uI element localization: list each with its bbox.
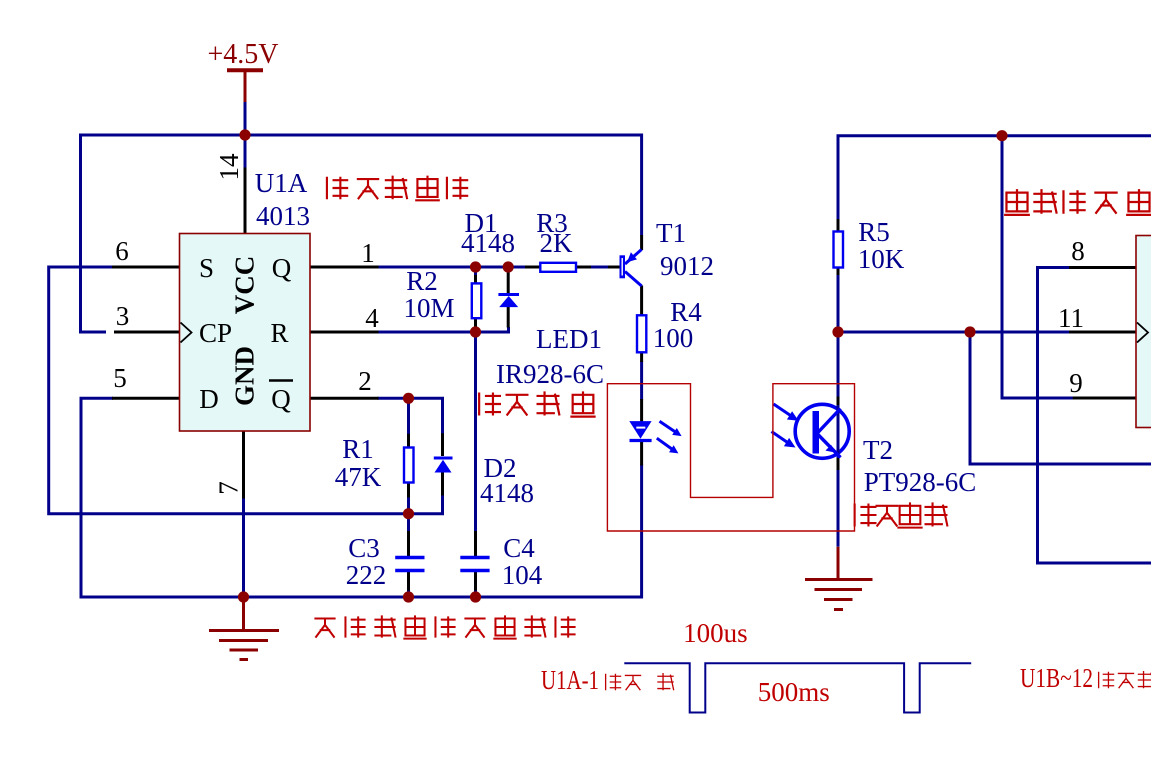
svg-text:R2: R2 (406, 266, 438, 296)
node: ground rail / pin7 (238, 591, 249, 602)
wire: R5 bottom to pin11 row (838, 274, 1070, 332)
svg-text:R5: R5 (858, 217, 890, 247)
svg-text:4013: 4013 (256, 201, 310, 231)
ground (under T2) (805, 547, 873, 610)
resistor R3 (540, 263, 576, 272)
svg-text:6: 6 (115, 236, 129, 266)
wire: pin 14 from power junction (244, 102, 247, 169)
transistor T1 (PNP 9012) (620, 249, 642, 286)
wire: T1 collector to R4 to LED1 (640, 361, 643, 400)
resistor R1 (404, 448, 414, 483)
svg-text:2K: 2K (540, 228, 574, 258)
svg-text:C3: C3 (348, 533, 380, 563)
svg-text:T2: T2 (863, 435, 893, 465)
svg-text:100: 100 (653, 323, 694, 353)
svg-text:R1: R1 (342, 434, 374, 464)
ground (left, under pin 7) (209, 600, 279, 660)
wire: rail junction down to pin 9 (1002, 136, 1074, 398)
label 红外发射 (IR transmit, stylized) (479, 391, 596, 416)
svg-text:D: D (199, 384, 219, 414)
black pin stub: LED1 terminals (640, 399, 643, 466)
node: R row / R2 bottom (470, 326, 481, 337)
node: pin11 row branch (964, 326, 975, 337)
black pin stub: T2 terminals (837, 397, 840, 471)
black pin stub: R3 terminals and T1 base (525, 266, 620, 269)
svg-text:222: 222 (346, 560, 387, 590)
svg-text:7: 7 (214, 481, 244, 495)
wire: T2 collector/emitter column (837, 332, 840, 547)
svg-text:4148: 4148 (461, 228, 515, 258)
label 红外接收 (IR receive, stylized) (855, 502, 948, 527)
black pin stub: D2 terminals (441, 433, 444, 495)
resistor R4 (637, 315, 646, 352)
svg-text:CP: CP (199, 318, 232, 348)
wire: D pin to bottom ground rail and up LED branch (81, 398, 642, 597)
black pin stub: U1A left pins (112, 267, 180, 398)
svg-text:Q: Q (271, 384, 291, 414)
diode D2 (434, 458, 453, 473)
black pin stub: C4 terminals (474, 531, 477, 591)
LED LED1 (629, 421, 681, 453)
capacitor C3 (395, 558, 424, 571)
svg-text:10K: 10K (858, 244, 905, 274)
svg-text:C4: C4 (503, 533, 535, 563)
clock triangle U1A pin CP (181, 323, 192, 343)
svg-text:1: 1 (361, 238, 375, 268)
svg-text:11: 11 (1058, 303, 1084, 333)
diode D1 (498, 295, 519, 308)
svg-text:LED1: LED1 (536, 324, 602, 354)
node: Q row / D1 top (503, 261, 514, 272)
svg-text:104: 104 (502, 560, 543, 590)
node: R1 bottom feedback (403, 508, 414, 519)
svg-text:R: R (270, 318, 288, 348)
black pin stub: R1 terminals (407, 434, 410, 498)
wire: R1 branch vertical and C3 branch (407, 398, 410, 597)
wire: S pin feedback loop (pin6 left, down, right to R1/D2 bottom node) (49, 267, 443, 514)
svg-text:9: 9 (1069, 368, 1083, 398)
svg-text:10M: 10M (403, 293, 454, 323)
resistor R2 (472, 283, 482, 318)
svg-text:5: 5 (113, 363, 127, 393)
phototransistor T2 (PT928-6C) (772, 404, 850, 458)
wire: R2 branch verticals and C4 branch (474, 267, 477, 597)
wire: pin 7 to ground rail (242, 498, 245, 597)
svg-text:4148: 4148 (480, 478, 534, 508)
label 脉冲发生器 (pulse generator, stylized) (327, 176, 468, 201)
node: R5 bottom / T2 collector (832, 326, 843, 337)
IC U1B body (partial, right edge) (1136, 236, 1151, 428)
label 脚波形 (waveform label 1, stylized) (606, 673, 674, 690)
svg-text:U1A-1: U1A-1 (541, 665, 599, 695)
svg-text:Q: Q (272, 253, 292, 283)
svg-text:500ms: 500ms (758, 677, 830, 707)
svg-text:S: S (199, 253, 214, 283)
svg-text:T1: T1 (656, 218, 686, 248)
node: ground rail / C4 (470, 591, 481, 602)
black pin stub: U1B pins 8, 11, 9 (1069, 268, 1136, 399)
svg-text:100us: 100us (683, 618, 748, 648)
black pin stub: T1 emitter and collector, R4 bottom (640, 235, 643, 362)
label 微功耗红外感应开关 (micro-power IR sensing switch, stylized) (314, 615, 575, 638)
svg-text:+4.5V: +4.5V (207, 39, 278, 70)
svg-text:47K: 47K (335, 462, 382, 492)
node: ground rail / C3 (403, 591, 414, 602)
waveform U1A pin1 (624, 663, 971, 712)
svg-text:14: 14 (214, 153, 244, 181)
svg-text:GND: GND (230, 346, 260, 406)
black pin stub: R2 terminals (474, 275, 477, 327)
svg-text:U1B~12: U1B~12 (1020, 663, 1093, 693)
clock triangle U1B pin 11 (1137, 323, 1148, 343)
node: power junction at pin14 (239, 129, 250, 140)
svg-text:IR928-6C: IR928-6C (496, 359, 604, 389)
wire: Qbar pin2 row to D2 top corner (378, 398, 443, 433)
wire: node at 970 down to row 464 off right edge (970, 332, 1151, 464)
svg-text:VCC: VCC (230, 256, 260, 315)
black pin stub: C3 terminals (407, 531, 410, 591)
svg-text:3: 3 (116, 301, 130, 331)
node: right rail junction (996, 130, 1007, 141)
svg-text:U1A: U1A (255, 168, 308, 198)
svg-text:2: 2 (358, 366, 372, 396)
svg-text:8: 8 (1071, 236, 1085, 266)
optocoupler outline box (607, 384, 854, 531)
svg-text:4: 4 (365, 303, 379, 333)
black pin stub: D1 terminals (507, 272, 510, 328)
node: Qbar row / R1 top (403, 393, 414, 404)
svg-text:9012: 9012 (660, 251, 714, 281)
capacitor C4 (460, 558, 489, 571)
label 可重触发单 (retriggerable mono, stylized) (1004, 189, 1151, 215)
IC U1A body (4013) (180, 234, 311, 432)
wire: R pin4 row to R2/D1 bottom (378, 327, 509, 332)
wire: Q pin1 row to R3 and T1 base (378, 266, 527, 269)
label 脚波形 (waveform label 2, stylized) (1099, 671, 1151, 688)
resistor R5 (834, 232, 844, 268)
node: Q row / R2 top (470, 261, 481, 272)
black pin stub: pin14 and pin7 (244, 168, 246, 499)
black pin stub: R5 terminals (837, 219, 840, 275)
svg-text:PT928-6C: PT928-6C (864, 467, 977, 497)
black pin stub: U1A right pins (310, 267, 379, 398)
wire: pin 8 loop down to row 563 off right edge (1038, 268, 1151, 564)
wire: +4.5V rail to U1A pin3 loop (top rail, left vertical to CP) (81, 135, 642, 332)
wire: right +V rail with corner to R5 (838, 136, 1151, 225)
